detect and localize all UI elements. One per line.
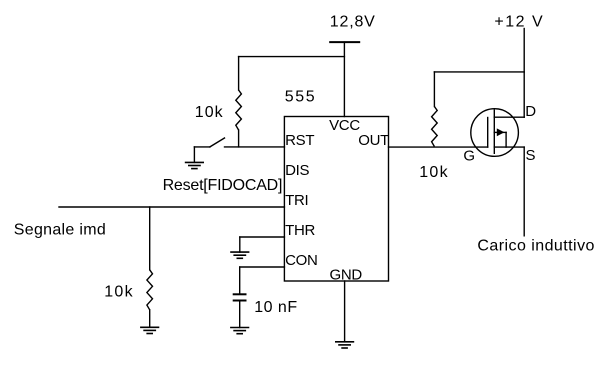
svg-text:10k: 10k: [195, 104, 224, 121]
svg-text:TRI: TRI: [285, 192, 308, 209]
svg-text:S: S: [526, 147, 536, 164]
svg-text:GND: GND: [330, 266, 363, 283]
svg-text:CON: CON: [285, 252, 317, 269]
svg-text:+12 V: +12 V: [494, 14, 544, 31]
svg-text:12,8V: 12,8V: [330, 14, 376, 31]
svg-text:Reset[FIDOCAD]: Reset[FIDOCAD]: [163, 177, 283, 194]
svg-text:555: 555: [285, 88, 317, 105]
svg-text:10k: 10k: [419, 164, 449, 181]
svg-text:Segnale imd: Segnale imd: [14, 222, 106, 239]
svg-text:Carico induttivo: Carico induttivo: [477, 238, 594, 255]
svg-text:G: G: [463, 148, 475, 165]
svg-text:D: D: [525, 103, 536, 120]
svg-text:DIS: DIS: [285, 162, 309, 179]
svg-text:10k: 10k: [104, 284, 134, 301]
svg-text:RST: RST: [285, 132, 314, 149]
svg-text:OUT: OUT: [358, 132, 389, 149]
svg-text:THR: THR: [285, 222, 315, 239]
svg-text:10 nF: 10 nF: [254, 299, 297, 316]
svg-text:VCC: VCC: [329, 117, 360, 134]
